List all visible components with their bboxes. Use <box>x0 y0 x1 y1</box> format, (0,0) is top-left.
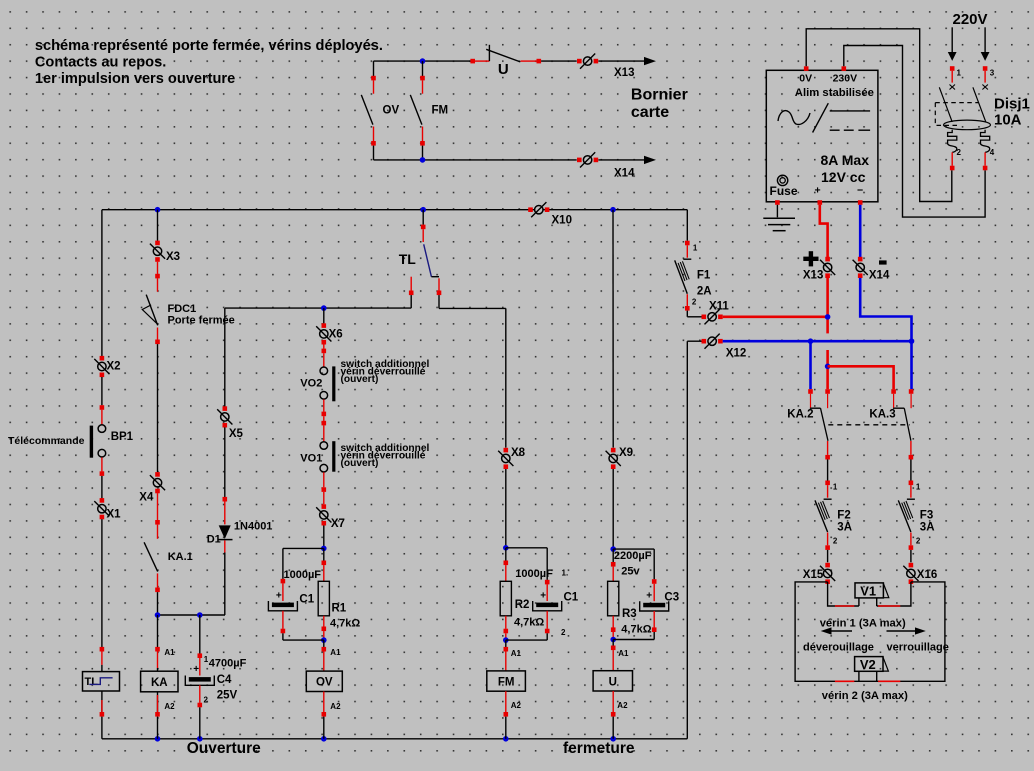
wire coil FM to bottom rail <box>505 691 507 712</box>
capacitor C1 (OV) <box>272 603 294 608</box>
svg-text:+: + <box>193 664 199 675</box>
svg-text:1: 1 <box>833 483 838 492</box>
terminal X13 (right) <box>823 263 831 271</box>
svg-text:R1: R1 <box>332 603 347 615</box>
breaker Disj1 pole 2 bottom pin <box>984 152 986 165</box>
wire + supply to X13 (red) <box>820 205 828 257</box>
svg-text:2: 2 <box>916 537 921 546</box>
wire X12 corner to bottom rail <box>687 340 702 342</box>
svg-text:V1: V1 <box>860 583 876 598</box>
wire TL right contact to X8 column <box>438 295 440 308</box>
svg-text:1000µF: 1000µF <box>515 568 553 580</box>
wire left rail upper <box>101 210 103 357</box>
svg-text:4,7kΩ: 4,7kΩ <box>330 618 360 630</box>
wire 0V to Disj pin 2 <box>806 29 952 202</box>
svg-text:F1: F1 <box>697 270 711 282</box>
wire C4 to bottom rail <box>199 685 201 703</box>
svg-text:VO2: VO2 <box>300 378 322 390</box>
svg-text:X8: X8 <box>511 447 526 459</box>
svg-text:F2: F2 <box>837 510 850 522</box>
svg-text:C1: C1 <box>564 592 579 604</box>
svg-text:X5: X5 <box>229 428 244 440</box>
wire X15 to V1 <box>828 582 859 606</box>
svg-text:25v: 25v <box>621 566 640 578</box>
terminal X13 (top) <box>583 57 591 65</box>
svg-text:A1: A1 <box>618 649 629 658</box>
diode D1 1N4001 <box>219 525 231 539</box>
wire main bottom rail <box>102 738 687 740</box>
wire verin outer loop <box>795 582 945 681</box>
pin + (supply) <box>818 200 823 205</box>
svg-text:(ouvert): (ouvert) <box>341 374 379 385</box>
svg-text:X2: X2 <box>107 361 121 373</box>
wire F2 to X15 <box>827 550 829 562</box>
wire X12 to - rail (blue) <box>723 340 912 343</box>
wire node to capacitor C4 <box>199 615 201 654</box>
ground symbol <box>776 205 778 218</box>
svg-text:D1: D1 <box>207 534 221 546</box>
terminal X8 <box>504 448 509 453</box>
capacitor C1 (FM) <box>536 603 558 608</box>
svg-text:2: 2 <box>692 298 697 307</box>
contact KA.2 <box>808 389 813 394</box>
svg-text:X13: X13 <box>614 67 634 79</box>
switch TL (changeover) <box>422 210 424 225</box>
svg-text:X4: X4 <box>139 492 154 504</box>
resistor R3 <box>608 581 619 616</box>
svg-text:KA.1: KA.1 <box>168 551 193 563</box>
wire R3 to node <box>612 616 614 628</box>
wire node to coil KA <box>157 615 159 647</box>
svg-text:A2: A2 <box>511 701 522 710</box>
svg-text:25V: 25V <box>217 690 238 702</box>
svg-text:C4: C4 <box>217 674 232 686</box>
wire - rail to KA.3 right (blue) <box>910 341 913 389</box>
wire node to R2 <box>505 548 507 561</box>
svg-text:U: U <box>498 61 509 78</box>
wire C1 to node (FM) <box>546 611 548 629</box>
svg-text:X12: X12 <box>726 348 746 360</box>
svg-text:C3: C3 <box>664 592 679 604</box>
svg-text:10A: 10A <box>994 112 1022 129</box>
svg-text:KA: KA <box>151 677 168 689</box>
svg-text:+: + <box>540 591 546 602</box>
motor V2 <box>855 657 883 672</box>
breaker Disj1 pole 1 top pin <box>950 66 955 71</box>
contact OV <box>373 61 375 76</box>
svg-text:A2: A2 <box>617 701 628 710</box>
svg-text:0V: 0V <box>799 73 812 85</box>
terminal X3 <box>153 247 161 255</box>
svg-text:8A Max: 8A Max <box>821 152 870 168</box>
power supply box Alim stabilisée <box>766 70 878 202</box>
svg-text:230V: 230V <box>833 73 858 85</box>
terminal X2 <box>98 362 106 370</box>
svg-text:X14: X14 <box>869 270 890 282</box>
svg-text:Disj1: Disj1 <box>994 96 1030 113</box>
breaker Disj1 pole 1 bottom pin <box>951 152 953 165</box>
svg-text:X13: X13 <box>803 270 823 282</box>
wire node to coil FM <box>505 640 507 647</box>
fuse holder symbol <box>777 175 787 185</box>
DC symbol solid line <box>830 110 870 112</box>
svg-text:12V cc: 12V cc <box>821 169 866 185</box>
svg-text:X16: X16 <box>917 569 937 581</box>
svg-text:4,7kΩ: 4,7kΩ <box>621 624 651 636</box>
svg-text:A1: A1 <box>511 649 522 658</box>
svg-text:4700µF: 4700µF <box>209 658 247 670</box>
resistor R2 <box>500 581 511 616</box>
terminal X14 (top) <box>583 156 591 164</box>
breaker Disj1 pole 2 top pin <box>983 66 988 71</box>
wire coil KA to bottom rail <box>157 692 159 712</box>
terminal X14 (right) <box>856 263 864 271</box>
capacitor C3 <box>643 603 665 608</box>
fuse F2 <box>825 481 830 486</box>
svg-text:1N4001: 1N4001 <box>234 521 273 533</box>
wire node to coil OV <box>323 640 325 647</box>
svg-text:Ouverture: Ouverture <box>187 740 261 757</box>
terminal X4 <box>153 479 161 487</box>
wire red to KA.3 (red) <box>828 366 894 389</box>
contact KA.1 <box>157 493 159 520</box>
svg-text:A2: A2 <box>330 702 341 711</box>
wire F1 to X11 <box>686 311 688 317</box>
wire cap branch (OV) <box>283 547 324 549</box>
svg-text:3: 3 <box>990 69 995 78</box>
wire main top rail <box>102 209 687 211</box>
terminal X16 <box>907 569 915 577</box>
svg-text:schéma représenté porte fermée: schéma représenté porte fermée, vérins d… <box>35 38 383 54</box>
svg-text:R2: R2 <box>515 599 530 611</box>
svg-text:+: + <box>646 591 652 602</box>
wire top rail to X9 <box>612 210 614 448</box>
contact FM <box>420 58 426 64</box>
wire coil OV to bottom rail <box>323 692 325 713</box>
wire F3 to X16 <box>910 550 912 562</box>
svg-text:1: 1 <box>957 69 962 78</box>
svg-text:X1: X1 <box>107 509 122 521</box>
wire - supply to X14 (blue) <box>859 205 862 257</box>
terminal X5 <box>221 413 229 421</box>
svg-text:TL: TL <box>85 676 99 688</box>
svg-text:verrouillage: verrouillage <box>887 642 949 654</box>
svg-text:+: + <box>815 185 821 197</box>
svg-text:2: 2 <box>204 696 209 705</box>
svg-text:vérin 2 (3A max): vérin 2 (3A max) <box>822 690 908 702</box>
contact U (NC, horizontal) <box>470 59 475 64</box>
breaker Disj1 thermal element pole 1 <box>948 130 957 153</box>
wire contacts row to X5 <box>224 308 226 406</box>
wire V2 pins (red) <box>835 680 854 682</box>
wire KA.3 to F3 <box>910 460 912 481</box>
coil KA <box>141 671 178 692</box>
wire X1 to coil TL <box>101 519 103 647</box>
svg-text:BP1: BP1 <box>111 431 134 443</box>
svg-text:X11: X11 <box>709 301 729 313</box>
svg-text:FM: FM <box>432 105 449 117</box>
wire KA.2 to F2 <box>827 460 829 481</box>
coil TL (timer) <box>83 672 120 691</box>
svg-text:1: 1 <box>916 483 921 492</box>
svg-text:V2: V2 <box>860 657 876 672</box>
svg-text:A1: A1 <box>164 648 175 657</box>
wire - rail to KA.2 (blue) <box>809 341 812 389</box>
wire top rail to X3 <box>157 210 159 241</box>
capacitor C4 <box>189 677 211 682</box>
label + (bold) <box>803 257 818 261</box>
terminal X10 <box>535 206 543 214</box>
svg-text:carte: carte <box>631 104 669 121</box>
wire arrow to bornier X14 <box>598 159 644 161</box>
label - (bold) <box>879 260 887 264</box>
limit switch FDC1 <box>157 262 159 274</box>
pin 0V <box>804 66 809 71</box>
svg-text:1: 1 <box>693 244 698 253</box>
svg-text:VO1: VO1 <box>300 453 322 465</box>
svg-text:X9: X9 <box>619 447 633 459</box>
terminal X12 <box>708 337 716 345</box>
svg-text:3A: 3A <box>920 522 935 534</box>
svg-text:X14: X14 <box>614 168 635 180</box>
wire X8 to node <box>505 469 507 548</box>
svg-text:TL: TL <box>399 251 417 267</box>
wire node to R1 <box>323 548 325 560</box>
coil OV <box>306 671 342 691</box>
wire X9 to node <box>612 469 614 549</box>
svg-text:déverouillage: déverouillage <box>803 642 874 654</box>
wire 230V to Disj pin 4 <box>844 46 985 218</box>
svg-text:C1: C1 <box>299 594 314 606</box>
svg-text:2A: 2A <box>697 286 712 298</box>
svg-text:Contacts au repos.: Contacts au repos. <box>35 55 166 71</box>
svg-text:X3: X3 <box>166 251 180 263</box>
svg-text:OV: OV <box>316 677 333 689</box>
AC sine symbol <box>778 111 810 125</box>
wire bottom rail of OV-FM loop <box>374 159 577 161</box>
wire arrow to bornier X13 <box>598 60 644 62</box>
mechanical link KA.2-KA.3 (dashed) <box>828 424 910 426</box>
arrow 220V pole 2 <box>984 27 986 52</box>
terminal X7 <box>322 504 327 509</box>
contact KA.3 <box>891 389 896 394</box>
wire X2 to BP1 <box>101 377 103 405</box>
wire C3 to node <box>653 611 655 628</box>
terminal X11 <box>708 313 716 321</box>
svg-text:2200µF: 2200µF <box>614 550 652 562</box>
arrow verrouillage <box>887 630 916 632</box>
svg-text:1er impulsion vers ouverture: 1er impulsion vers ouverture <box>35 71 235 87</box>
svg-text:+: + <box>276 591 282 602</box>
wire VO1 to X7 <box>323 472 325 487</box>
coil FM <box>487 671 526 691</box>
wire C1 to node (OV) <box>282 611 284 629</box>
arrow 220V pole 1 <box>951 27 953 52</box>
svg-text:KA.2: KA.2 <box>787 409 813 421</box>
wire cap branch (FM) <box>506 547 547 549</box>
svg-text:F3: F3 <box>920 510 933 522</box>
switch VO2 <box>323 344 325 348</box>
wire FDC1 to X4 <box>157 344 159 472</box>
wire coil U to bottom rail <box>612 691 614 712</box>
breaker Disj1 oval link <box>944 120 991 130</box>
svg-text:2: 2 <box>833 537 838 546</box>
svg-text:Alim stabilisée: Alim stabilisée <box>795 87 874 99</box>
fuse F1 <box>685 241 690 246</box>
wire coil TL to bottom rail <box>101 691 103 712</box>
terminal X6 <box>323 308 325 323</box>
svg-text:(ouvert): (ouvert) <box>341 458 379 469</box>
wire cap branch (C3) <box>613 548 654 550</box>
pushbutton BP1 <box>98 425 106 433</box>
wire red net to KA contacts <box>826 350 829 389</box>
wire VO2 to VO1 <box>323 399 325 411</box>
DC symbol dashed line <box>830 129 840 131</box>
pin - (supply) <box>858 200 863 205</box>
fuse F3 <box>909 481 914 486</box>
svg-text:3A: 3A <box>837 522 852 534</box>
svg-text:OV: OV <box>383 105 400 117</box>
svg-text:4: 4 <box>990 148 995 157</box>
svg-text:X6: X6 <box>329 329 343 341</box>
terminal X15 <box>823 569 831 577</box>
svg-text:2: 2 <box>957 148 962 157</box>
svg-text:KA.3: KA.3 <box>869 409 895 421</box>
svg-text:U: U <box>609 676 617 688</box>
svg-text:Bornier: Bornier <box>631 87 688 104</box>
arrow déverouillage <box>831 630 852 632</box>
svg-text:Fuse: Fuse <box>770 184 798 198</box>
svg-text:X15: X15 <box>803 569 824 581</box>
svg-text:220V: 220V <box>953 11 988 28</box>
wire TL left contact to contacts row <box>410 295 412 308</box>
breaker Disj1 thermal element pole 2 <box>981 130 990 153</box>
wire top rail right corner down <box>686 210 688 241</box>
breaker Disj1 blades <box>939 87 952 122</box>
wire X14 to - rail (blue) <box>860 278 911 341</box>
svg-text:FM: FM <box>498 677 515 689</box>
svg-text:2: 2 <box>561 628 566 637</box>
svg-text:4,7kΩ: 4,7kΩ <box>514 617 544 629</box>
svg-text:A1: A1 <box>330 648 341 657</box>
wire node to coil U <box>612 640 614 646</box>
wire X11 to + node (red) <box>723 315 828 318</box>
wire BP1 to X1 <box>101 457 103 471</box>
svg-text:X7: X7 <box>331 518 345 530</box>
svg-text:vérin 1 (3A max): vérin 1 (3A max) <box>820 618 906 630</box>
wire KA.1 to node <box>157 592 159 615</box>
svg-text:Télécommande: Télécommande <box>8 435 85 447</box>
terminal X1 <box>98 505 106 513</box>
wire X5 to D1 <box>224 427 226 497</box>
svg-text:R3: R3 <box>622 608 637 620</box>
wire top rail of OV-FM loop <box>374 60 471 62</box>
svg-text:−: − <box>857 185 863 197</box>
pin 230V <box>842 66 847 71</box>
svg-text:1000µF: 1000µF <box>284 569 322 581</box>
conversion slash <box>813 103 829 132</box>
resistor R1 <box>318 581 329 616</box>
wire X13 to junction (red) <box>826 278 829 317</box>
svg-text:fermeture: fermeture <box>563 740 635 757</box>
switch VO1 <box>320 442 328 450</box>
wire node to R3 <box>612 549 614 562</box>
svg-text:FDC1: FDC1 <box>168 303 197 315</box>
wire X16 to V1 <box>877 582 911 606</box>
svg-text:1.: 1. <box>562 569 569 578</box>
svg-text:X10: X10 <box>552 215 572 227</box>
node junction D1/C4 row <box>158 614 226 616</box>
motor V1 <box>855 583 883 598</box>
wire R1 to node <box>323 616 325 627</box>
svg-text:A2: A2 <box>164 702 175 711</box>
wire X7 to node <box>323 526 325 549</box>
wire R2 to node <box>505 616 507 629</box>
pin Fuse <box>775 200 780 205</box>
wire D1 to node <box>224 540 226 552</box>
terminal X9 <box>611 448 616 453</box>
coil U <box>593 671 632 691</box>
breaker Disj1 mechanical link (dashed) <box>935 102 979 104</box>
